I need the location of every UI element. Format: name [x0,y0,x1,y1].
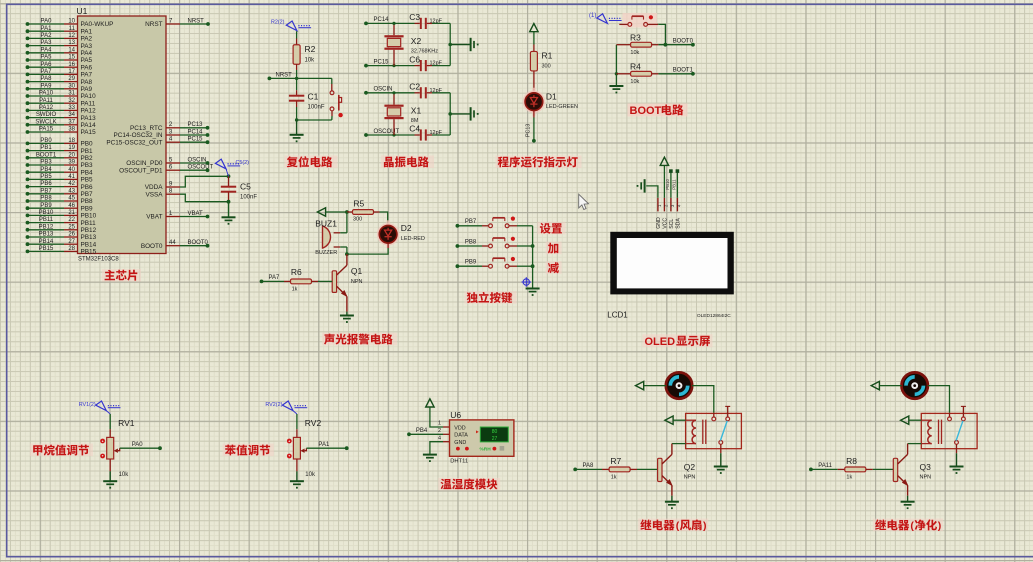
svg-text:PB12: PB12 [39,224,54,230]
svg-text:PB10: PB10 [39,210,54,216]
svg-text:PC15: PC15 [188,137,204,143]
wire GND pin to side ground [646,186,658,198]
wire+pin SWCLK (pin 37) [26,119,97,129]
svg-text:PC14: PC14 [374,17,390,23]
svg-text:PC14-OSC32_IN: PC14-OSC32_IN [113,132,162,139]
caption ('继电器(净化)', '') [873,519,943,532]
selection highlight behind boot button [623,13,658,28]
potentiometer RV2 10k [293,418,321,478]
resistor R5 300 [347,198,380,222]
buzzer BUZ1 [315,219,347,256]
wire+pin PA2 (pin 12) [26,33,93,43]
wire right rail [449,23,451,65]
svg-text:PA12: PA12 [81,108,97,115]
svg-text:BOOT0: BOOT0 [188,240,209,246]
wire emitter of Q2 to ground [671,496,673,501]
wire common contact to ground [956,444,958,453]
wire+pin PA8 (pin 29) [26,76,93,86]
wire+pin PB14 (pin 27) [26,239,97,249]
ground below Q1 [340,316,354,323]
transistor Q2 NPN [658,444,696,496]
wire+pin PA9 (pin 30) [26,83,93,93]
svg-text:BOOT0: BOOT0 [141,243,163,250]
wire key PB8 to common rail [517,245,533,247]
svg-text:NPN: NPN [920,475,932,481]
svg-text:R7: R7 [610,456,621,466]
svg-text:PA7: PA7 [269,275,281,281]
wire PB6 to DATA [409,433,443,435]
node R4 junction [615,72,618,75]
wire RV2 to ground [296,459,298,471]
svg-text:D2: D2 [401,223,412,233]
svg-text:16: 16 [68,62,75,68]
svg-text:PB4: PB4 [81,169,94,176]
svg-text:PA2: PA2 [41,33,53,39]
svg-text:PB5: PB5 [81,177,94,184]
pin OSCIN_PD0 (5) [126,157,209,167]
interactive arrows of RV1 [100,439,105,444]
caption 减 [546,261,562,274]
crystal X1 8M [384,91,421,136]
svg-text:14: 14 [68,47,75,53]
svg-text:PA4: PA4 [41,47,53,53]
svg-text:Q1: Q1 [351,266,363,276]
capacitor C3 12pF [409,12,442,29]
svg-text:19: 19 [68,145,75,151]
wire SCL with terminal [670,172,672,198]
svg-text:R3: R3 [630,32,641,42]
svg-text:1: 1 [438,421,441,427]
resistor R4 10k [616,62,658,85]
svg-text:27: 27 [492,436,498,442]
wire rail to side ground [450,113,470,115]
pin OSCOUT_PD1 (6) [119,165,213,175]
svg-text:OSCIN: OSCIN [374,87,393,93]
svg-text:Q3: Q3 [920,462,932,472]
capacitor C5 100nF [221,176,258,201]
svg-text:(1): (1) [589,13,596,19]
wire+pin PB9 (pin 46) [26,203,93,213]
svg-text:PB1: PB1 [40,145,52,151]
wire+pin PA12 (pin 33) [26,105,97,115]
push button reset [330,78,343,120]
capacitor C6 12pF [409,54,442,71]
svg-text:R2: R2 [305,44,316,54]
svg-text:BUZZER: BUZZER [315,250,337,256]
svg-text:BUZ1: BUZ1 [315,219,337,229]
svg-text:40: 40 [68,167,75,173]
pin VDDA (9) [145,181,180,191]
svg-text:PB14: PB14 [39,239,54,245]
svg-text:SCL: SCL [669,219,675,229]
wire power to coil top [673,419,686,421]
svg-text:10k: 10k [630,50,639,56]
wire+pin PA10 (pin 31) [26,91,97,101]
svg-text:RV2(2): RV2(2) [265,402,282,408]
LED D1 LED-GREEN [524,88,578,116]
svg-text:PA11: PA11 [818,463,832,469]
svg-text:DHT11: DHT11 [450,458,468,464]
svg-text:PB7: PB7 [465,219,477,225]
flag RV2(2) [282,401,293,411]
caption 甲烷值调节 [30,444,93,457]
svg-text:PB4: PB4 [416,428,428,434]
pin PC13_RTC (2) [130,122,209,132]
node collector junction [345,252,349,256]
svg-text:PB9: PB9 [465,260,477,266]
svg-text:OSCIN: OSCIN [188,157,207,163]
resistor R3 10k [616,32,658,55]
display LCD1 OLED body [610,232,734,295]
svg-text:R2(2): R2(2) [271,20,285,26]
caption BOOT电路 [628,104,688,117]
svg-text:PB3: PB3 [40,160,52,166]
svg-text:PA10: PA10 [81,93,97,100]
op chip U1 STM32F103C8 body [78,16,167,254]
wire OSCOUT to C4 [366,134,415,136]
wire R1 to D1 [533,71,535,93]
flag C5(2) [215,159,226,169]
svg-text:BOOT1: BOOT1 [36,152,57,158]
node OSCOUT [364,133,368,137]
wire RV1 to ground [109,459,111,471]
wire+pin PA1 (pin 11) [26,26,93,36]
svg-text:R4: R4 [630,62,641,72]
svg-text:VCC: VCC [662,218,668,229]
svg-text:11: 11 [69,26,76,32]
svg-text:OSCOUT: OSCOUT [374,129,400,135]
svg-text:4: 4 [438,435,441,441]
svg-text:PA6: PA6 [81,64,93,71]
sensor U6 DHT11 body [450,410,514,464]
caption OLED显示屏 [643,334,713,347]
svg-text:PA6: PA6 [41,62,53,68]
power terminal above VCC [660,157,668,165]
svg-text:R1: R1 [542,51,553,61]
svg-text:PA1: PA1 [81,28,93,35]
node R5/buzzer junction [345,210,349,214]
wire OSCIN to C2 [366,92,415,94]
power terminal left of coil [665,416,673,424]
svg-text:10: 10 [68,19,75,25]
wire buzzer to collector junction [346,247,348,254]
svg-text:PB11: PB11 [39,217,54,223]
svg-text:PC13: PC13 [526,124,532,137]
svg-text:NRST: NRST [145,21,162,28]
svg-text:LED-GREEN: LED-GREEN [546,104,578,110]
caption 程序运行指示灯 [496,156,582,169]
wire flag to RV2 [296,414,298,429]
svg-text:NRST: NRST [276,72,293,78]
svg-text:10k: 10k [305,58,316,64]
wire power to coil top [909,419,922,421]
wire+pin PB12 (pin 25) [26,224,97,234]
wire VCC pin to power [663,166,665,198]
svg-text:C5(2): C5(2) [236,160,250,166]
svg-text:46: 46 [68,203,75,209]
wire R2 to NRST node [296,64,298,70]
caption 晶振电路 [381,156,434,169]
svg-text:PA8: PA8 [41,76,53,82]
wire+pin PB5 (pin 41) [26,174,93,184]
motor of ('继电器(风扇)', '') [666,372,692,398]
wire PC15 to C6 [366,65,415,67]
wire+pin PB15 (pin 28) [26,246,97,256]
wire+pin PA6 (pin 16) [26,62,93,72]
wire wiper to PA1 [306,447,346,449]
svg-text:13: 13 [68,40,75,46]
wire emitter of Q3 to ground [907,496,909,501]
svg-text:PB9: PB9 [40,203,52,209]
svg-text:R6: R6 [291,267,302,277]
ground below Q3 [901,502,915,509]
wire+pin PA4 (pin 14) [26,47,93,57]
svg-text:RV1(2): RV1(2) [79,402,96,408]
svg-text:20: 20 [68,152,75,158]
flag R2(2) [286,21,297,31]
svg-text:PB7: PB7 [40,188,52,194]
svg-text:): ) [938,520,942,532]
motor of ('继电器(净化)', '') [902,372,928,398]
wire coil bottom to collector [908,443,922,445]
caption 设置 [538,222,566,235]
svg-text:PB5: PB5 [40,174,52,180]
wire SDA with terminal [676,172,678,198]
svg-text:PA15: PA15 [39,127,54,133]
svg-text:U6: U6 [450,410,461,420]
wire flag to R2 [296,31,298,38]
wire R8 to Q3 base [873,468,894,470]
svg-text:PB11: PB11 [671,179,676,190]
relay coil [686,420,706,444]
transistor Q3 NPN [893,444,931,496]
wire C4 to right rail [432,134,450,136]
pin GND of LCD1 (pin 1) [656,198,662,229]
wire R4 to BOOT1 [658,73,693,75]
node PC14 [364,22,368,26]
ground below left rail [609,86,623,93]
svg-text:PA9: PA9 [41,83,53,89]
svg-text:(: ( [910,520,914,532]
svg-text:18: 18 [68,138,75,144]
power terminal left of motor [636,381,644,389]
caption 复位电路 [285,156,338,169]
svg-text:300: 300 [353,217,362,223]
power terminal left of coil [901,416,909,424]
wire+pin PA5 (pin 15) [26,55,93,65]
svg-text:SDA: SDA [675,218,681,229]
wire emitter to ground [346,312,348,315]
svg-text:32.768KHz: 32.768KHz [411,49,438,55]
wire power to motor [644,385,666,387]
svg-text:STM32F103C8: STM32F103C8 [78,257,119,263]
svg-text:NPN: NPN [351,279,363,285]
svg-text:27: 27 [68,239,75,245]
wire C6 to right rail [432,65,450,67]
svg-text:PA0: PA0 [41,19,53,25]
wire flag to RV1 [109,414,111,429]
svg-text:C2: C2 [409,82,420,92]
svg-text:PA0: PA0 [132,442,144,448]
svg-text:1k: 1k [611,474,617,480]
svg-text:LED-RED: LED-RED [401,236,425,242]
svg-text:PC15-OSC32_OUT: PC15-OSC32_OUT [106,139,162,146]
svg-text:C1: C1 [308,92,319,102]
power terminal left of motor [871,381,879,389]
wire C3 to right rail [432,22,450,24]
svg-text:41: 41 [68,174,75,180]
svg-text:PB10: PB10 [665,179,670,190]
wire+pin PB1 (pin 19) [26,145,93,155]
svg-text:PA11: PA11 [39,98,53,104]
svg-text:RV2: RV2 [305,418,322,428]
wire C2 to right rail [432,92,450,94]
label 主芯片 [102,269,141,282]
wire+pin PA15 (pin 38) [26,127,97,137]
node rail/PB8 [531,244,535,248]
svg-text:PB0: PB0 [81,141,94,148]
wire+pin PB11 (pin 22) [26,217,97,227]
svg-text:29: 29 [68,76,75,82]
ground (side) for X2 [471,38,479,51]
relay body of ('继电器(净化)', '') [921,413,977,448]
caption ('继电器(风扇)', '') [638,519,708,532]
svg-text:PA10: PA10 [39,91,54,97]
svg-text:PB8: PB8 [81,198,94,205]
wire power to R1 [533,32,535,45]
wire+pin BOOT1 (pin 20) [26,152,93,162]
svg-text:PB8: PB8 [465,239,477,245]
node C5 bottom junction [227,200,231,204]
wire coil bottom to collector [672,443,686,445]
svg-text:NPN: NPN [684,475,696,481]
power terminal left of R5 [317,208,325,216]
ground below RV1 [103,481,117,488]
svg-text:PB0: PB0 [40,138,52,144]
wire right rail [449,93,451,135]
node PA1 [345,446,349,450]
svg-text:PA4: PA4 [81,50,93,57]
wire key PB7 to common rail [517,225,533,227]
LED D2 LED-RED [378,220,425,248]
svg-text:PA12: PA12 [39,105,54,111]
node PB4 [407,432,411,436]
svg-text:17: 17 [68,69,75,75]
transistor Q1 NPN [332,254,362,312]
wire+pin PB8 (pin 45) [26,196,93,206]
svg-text:VDDA: VDDA [145,184,163,191]
svg-text:PA3: PA3 [81,43,93,50]
svg-text:44: 44 [169,240,176,246]
pin BOOT0 (44) [141,240,210,250]
wire common rail [532,226,534,288]
svg-text:PB3: PB3 [81,162,94,169]
capacitor C2 12pF [409,82,442,99]
power terminal above R1 [530,24,538,32]
svg-text:2: 2 [438,428,441,434]
wire VSSA to C5 bottom [180,194,229,202]
relay coil [921,420,941,444]
wire+pin PB6 (pin 42) [26,181,93,191]
caption 声光报警电路 [322,333,397,346]
wire+pin PA7 (pin 17) [26,69,93,79]
wire power to R5 node [326,211,347,213]
svg-text:PB13: PB13 [81,234,97,241]
wire GND pin to ground [443,441,450,443]
svg-text:15: 15 [68,55,75,61]
svg-text:PC13_RTC: PC13_RTC [130,125,163,132]
svg-text:DATA: DATA [454,433,468,439]
wire C5 to ground [228,202,230,217]
svg-text:PB4: PB4 [40,167,52,173]
wire NRST down to C1 [296,78,298,90]
svg-text:LCD1: LCD1 [607,310,628,319]
svg-text:R5: R5 [353,198,364,208]
wire NRST horizontal [269,77,331,79]
node PC15 [364,64,368,68]
svg-text:PB11: PB11 [81,220,97,227]
svg-text:38: 38 [68,127,75,133]
svg-text:45: 45 [68,196,75,202]
svg-text:100nF: 100nF [308,105,325,111]
svg-text:43: 43 [68,188,75,194]
capacitor C4 12pF [409,124,442,141]
svg-text:X2: X2 [411,36,422,46]
wire wiper to PA0 [120,447,160,449]
svg-text:32: 32 [68,98,75,104]
svg-text:31: 31 [68,91,75,97]
svg-text:RV1: RV1 [118,418,135,428]
svg-text:PA13: PA13 [81,115,97,122]
wire C1 to ground junction [296,107,298,120]
wire R3 to BOOT0 [658,44,693,46]
svg-text:300: 300 [542,64,551,70]
svg-text:BOOT0: BOOT0 [673,39,694,45]
svg-text:%RH: %RH [480,447,492,453]
svg-text:VDD: VDD [454,425,465,431]
svg-text:80: 80 [492,429,498,435]
wire motor to relay contact [928,386,950,413]
power terminal above U6 [426,399,434,407]
wire junction to button bottom [297,119,332,121]
resistor R2 10k [293,44,316,64]
node BOOT1 [691,72,695,76]
svg-text:C5: C5 [240,182,251,192]
interactive arrows of RV2 [287,439,292,444]
svg-text:PC13: PC13 [188,122,204,128]
resistor R8 1k [811,456,873,480]
flag RV1(2) [96,401,107,411]
node PA0 [158,446,162,450]
svg-text:X1: X1 [411,106,422,116]
svg-text:21: 21 [68,210,75,216]
node PB9 [456,260,477,269]
svg-text:PA5: PA5 [81,57,93,64]
svg-text:PB9: PB9 [81,205,94,212]
resistor R6 1k [262,267,319,292]
svg-text:22: 22 [68,217,75,223]
node PA7 [260,280,264,284]
svg-text:PA1: PA1 [41,26,53,32]
svg-text:C6: C6 [409,54,420,64]
resistor R7 1k [575,456,637,480]
svg-text:37: 37 [68,119,75,125]
svg-text:PB1: PB1 [81,148,94,155]
pin PC15-OSC32_OUT (4) [106,137,209,147]
svg-text:GND: GND [454,440,466,446]
svg-text:PB8: PB8 [40,196,52,202]
svg-text:PA5: PA5 [41,55,53,61]
